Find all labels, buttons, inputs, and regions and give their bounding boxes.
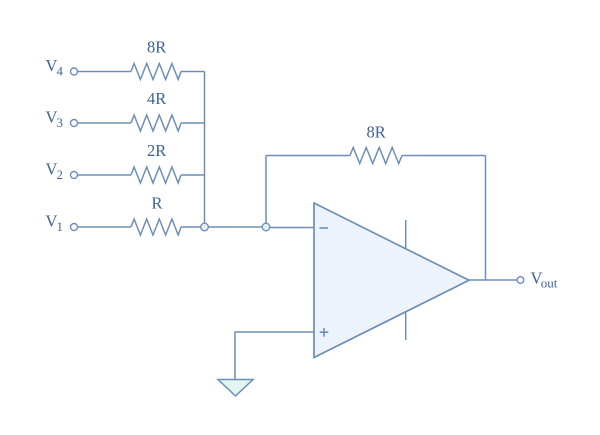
wire V1 to R4 [78,226,132,228]
svg-text:8R: 8R [147,38,166,57]
svg-text:4: 4 [57,64,64,78]
wire V3 to R2 [78,122,132,124]
terminal V1 [71,224,78,231]
node V1 label [46,212,63,234]
wire V4 to R1 [78,71,132,73]
node A (bus junction) [201,223,209,231]
op-amp inverting input label [320,227,329,229]
wire op-amp output [469,279,517,281]
op-amp positive supply pin [405,220,407,248]
terminal Vout [517,277,524,284]
op-amp non-inverting input label [320,328,329,337]
node Vout label [531,269,558,291]
wire node A to node B [208,226,262,228]
resistor 8R (feedback) [350,148,402,164]
ground [218,380,253,397]
resistor 8R (V4 input) [131,64,181,80]
node V3 label [46,108,63,130]
wire feedback riser from node B [265,156,267,224]
wire R1 to bus [181,71,205,73]
node V4 label [46,56,64,78]
svg-text:8R: 8R [367,123,386,142]
op-amp negative supply pin [405,312,407,340]
terminal V2 [71,172,78,179]
node B (feedback junction) [262,223,270,231]
wire feedback top left [266,155,350,157]
wire op-amp non-inverting input [235,332,314,379]
svg-text:1: 1 [57,220,63,234]
resistor 2R (V2 input) [131,167,181,183]
resistor 4R (V3 input) [131,115,181,131]
wire R4 to node A [181,226,201,228]
svg-text:4R: 4R [147,89,166,108]
svg-text:3: 3 [57,116,63,130]
wire feedback top right [402,155,486,157]
wire R2 to bus [181,122,205,124]
wire feedback drop to output [485,156,487,281]
resistor R (V1 input) [131,219,181,235]
terminal V3 [71,120,78,127]
op-amp U1 [314,203,469,358]
terminal V4 [71,68,78,75]
svg-text:2R: 2R [147,141,166,160]
wire node B to op-amp inverting input [270,227,314,229]
svg-text:2: 2 [57,168,63,182]
svg-text:out: out [541,275,558,290]
wire summing bus vertical [204,72,206,224]
svg-text:R: R [152,194,163,213]
wire V2 to R3 [78,174,132,176]
node V2 label [46,160,63,182]
wire R3 to bus [181,174,205,176]
